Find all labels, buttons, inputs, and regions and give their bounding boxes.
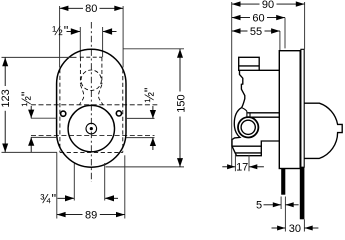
extension line 3/4 right	[104, 163, 106, 201]
extension line 5 left	[280, 197, 282, 210]
arrow 3/4" right	[105, 197, 118, 199]
extension line 55 right	[279, 31, 281, 51]
extension line 5 right	[284, 197, 286, 232]
port nipple lines	[246, 111, 248, 117]
body bottom line	[232, 145, 262, 147]
mounting bracket box	[279, 51, 300, 169]
extension line 150 top	[124, 48, 185, 50]
svg-text:55: 55	[250, 26, 262, 38]
svg-text:60: 60	[252, 13, 264, 25]
extension line 90/60/55 left	[231, 2, 233, 167]
dimension 123 line	[4, 58, 6, 87]
dimension 89 arrows	[57, 212, 66, 217]
extension line 80-right	[122, 6, 124, 68]
dimension 89 line	[57, 214, 83, 216]
hidden port box top	[80, 56, 102, 58]
top port fitting box	[239, 57, 260, 70]
dimension 55 arrows	[232, 28, 241, 33]
dimension 55 line	[232, 30, 248, 32]
arrow 1/2" left down	[30, 106, 32, 118]
extension line 30 right	[303, 219, 305, 231]
screw left	[61, 111, 66, 116]
hidden box right edge	[122, 69, 124, 152]
svg-text:123: 123	[0, 89, 12, 107]
hidden box bottom edge	[60, 151, 123, 153]
dimension 90 line	[232, 3, 260, 5]
centerline horizontal upper ports	[31, 104, 157, 106]
screw right	[116, 111, 121, 116]
svg-text:5: 5	[256, 199, 262, 211]
top port fitting flange line	[239, 65, 260, 67]
dimension 150 arrows	[177, 49, 183, 58]
extension line port-left	[79, 27, 81, 57]
extension line 150 bottom	[106, 166, 184, 168]
hidden circle upper connection	[81, 70, 101, 90]
valve cartridge circle	[68, 105, 114, 151]
handle knob profile	[304, 103, 342, 158]
dimension 30 line right	[304, 227, 318, 229]
dimension 17 line left	[222, 166, 235, 168]
dimension 60 line	[232, 17, 250, 19]
arrow 1/2" top right	[103, 31, 117, 33]
svg-text:½ ": ½ "	[52, 23, 68, 38]
dimension 5 line right	[285, 204, 298, 206]
extension line side-port top left	[31, 117, 57, 119]
svg-text:¾ ": ¾ "	[40, 191, 56, 206]
svg-text:150: 150	[176, 94, 188, 112]
valve body profile	[232, 70, 279, 155]
valve stem circle	[86, 123, 97, 134]
svg-text:30: 30	[289, 223, 301, 234]
pipe to bracket upper line	[248, 112, 280, 114]
dimension 80 arrows	[60, 6, 69, 11]
extension line 80-left	[59, 6, 61, 68]
dimension 80 line	[60, 7, 83, 9]
hidden funnel left	[80, 85, 84, 105]
arrow 1/2" right up	[152, 138, 154, 150]
side port inner circle	[241, 120, 255, 134]
dimension 123 arrows	[2, 58, 8, 67]
extension line 60 right	[284, 18, 286, 49]
dimension 5 line left	[264, 204, 282, 206]
centerline horizontal lower	[31, 135, 155, 137]
valve stem center dot	[90, 127, 93, 130]
svg-text:½": ½"	[142, 87, 157, 102]
svg-text:90: 90	[262, 0, 274, 11]
extension line 123 top	[2, 56, 77, 58]
hidden port right line	[101, 57, 103, 84]
body shelf line	[259, 69, 279, 71]
arrow 1/2" left up	[30, 137, 32, 152]
dimension 30 line left	[272, 227, 286, 229]
centerline vertical	[90, 22, 92, 182]
extension line side-port bottom left	[31, 136, 57, 138]
escutcheon plate	[57, 49, 126, 167]
svg-text:17: 17	[236, 161, 248, 173]
hidden funnel right	[98, 85, 102, 105]
dimension 150 line	[179, 49, 181, 92]
extension line side-port top right	[126, 117, 155, 119]
extension line 90 right	[304, 2, 306, 49]
supply pipe left (black)	[281, 169, 285, 195]
dimension 17 line right	[249, 166, 264, 168]
extension line 89 right	[124, 155, 126, 218]
pipe to bracket lower line	[250, 116, 279, 118]
extension line 17 left	[234, 155, 236, 171]
svg-text:½": ½"	[19, 91, 34, 106]
svg-text:89: 89	[85, 210, 97, 222]
extension line 3/4 left	[73, 164, 75, 201]
arrow 1/2" top left	[67, 31, 81, 33]
wall plate edge-on	[301, 49, 304, 167]
extension line side-port bottom right	[126, 137, 155, 139]
extension line 89 left	[56, 152, 58, 218]
extension line 123 bottom	[2, 151, 58, 153]
side port boss arc	[242, 108, 247, 112]
side port outer circle	[238, 117, 258, 137]
extension line 17 right	[248, 155, 250, 171]
dimension 90 arrows	[232, 1, 241, 6]
dimension 60 arrows	[232, 15, 241, 20]
svg-text:80: 80	[85, 3, 97, 15]
hidden port left line	[79, 57, 81, 84]
hidden box left edge	[59, 69, 61, 152]
supply pipe right (black)	[300, 167, 305, 219]
arrow 1/2" right down	[152, 106, 154, 118]
body foot inner line	[235, 152, 261, 154]
extension line port-right	[102, 27, 104, 57]
arrow 3/4" left	[58, 197, 75, 199]
